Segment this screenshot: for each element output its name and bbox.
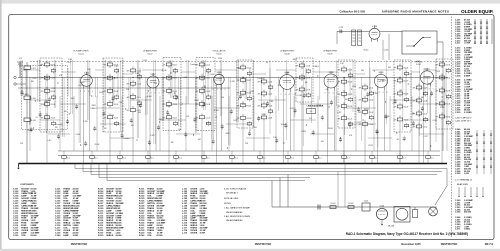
svg-text:47K: 47K	[413, 88, 417, 90]
component stack R101-R105	[41, 61, 56, 127]
audio ground drop	[381, 220, 383, 224]
svg-text:3: 3	[329, 93, 330, 95]
svg-text:C-1: C-1	[67, 157, 70, 159]
svg-text:15K: 15K	[245, 143, 249, 145]
heater supply wire A	[58, 150, 440, 152]
svg-text:T-401: T-401	[364, 200, 369, 202]
svg-text:C-341 25 MF 25 V: C-341 25 MF 25 V	[455, 121, 472, 123]
svg-text:C-139: C-139	[306, 90, 311, 92]
shield partition dashed vertical at right of schematic	[451, 17, 453, 239]
svg-text:C-1: C-1	[375, 157, 378, 159]
svg-text:R-134: R-134	[28, 130, 33, 132]
stack ground wire at x=344	[343, 122, 345, 164]
svg-text:22,000: 22,000	[116, 235, 122, 237]
cathode wire of V-105	[215, 87, 217, 163]
svg-text:2. ALL RESISTORS IN OHMS: 2. ALL RESISTORS IN OHMS	[224, 215, 251, 218]
svg-text:R-123: R-123	[302, 131, 307, 133]
svg-text:C-125: C-125	[206, 117, 211, 119]
svg-text:C-137: C-137	[306, 66, 311, 68]
svg-text:5: 5	[433, 89, 434, 91]
svg-text:220K: 220K	[218, 58, 223, 60]
svg-text:C-143: C-143	[432, 120, 437, 122]
svg-text:W-104: W-104	[80, 82, 85, 84]
svg-text:47K: 47K	[41, 117, 45, 119]
component stack C141-C144	[359, 84, 374, 128]
svg-text:R-130: R-130	[404, 120, 409, 122]
svg-text:V-401: V-401	[380, 206, 385, 208]
scan top edge bar	[0, 0, 500, 4]
svg-text:C-141: C-141	[369, 88, 374, 90]
svg-text:C-1: C-1	[179, 157, 182, 159]
svg-text:COIL: COIL	[21, 235, 26, 237]
svg-text:C-117: C-117	[67, 62, 71, 64]
phone jack J-401	[429, 207, 438, 216]
right parts list special rows	[455, 118, 472, 123]
svg-text:47K: 47K	[296, 90, 300, 92]
stack ground wire at x=264	[263, 121, 265, 163]
svg-text:V-109: V-109	[379, 72, 384, 74]
svg-text:220: 220	[55, 127, 58, 129]
svg-text:NOTES: NOTES	[224, 203, 231, 205]
right parts list group 4	[455, 128, 474, 175]
svg-text:R-134: R-134	[162, 70, 167, 72]
svg-text:47K: 47K	[196, 91, 200, 93]
svg-text:220: 220	[412, 113, 415, 115]
component stack R121-R125	[338, 66, 353, 127]
svg-text:R-105: R-105	[51, 117, 56, 119]
svg-text:3: 3	[285, 94, 286, 96]
svg-text:47K: 47K	[104, 104, 108, 106]
plate wire of V-105	[221, 87, 223, 151]
svg-text:C-143: C-143	[75, 134, 80, 136]
svg-text:AIRBORNE RADIO MAINTENANCE NOT: AIRBORNE RADIO MAINTENANCE NOTES	[382, 10, 449, 14]
svg-text:1. ALL CAPACITORS IN MMF: 1. ALL CAPACITORS IN MMF	[224, 207, 251, 210]
svg-text:47K: 47K	[127, 110, 131, 112]
svg-text:47K: 47K	[296, 78, 300, 80]
svg-text:.002: .002	[421, 97, 424, 99]
parts list column 1	[13, 187, 40, 237]
svg-text:47K: 47K	[41, 78, 45, 80]
svg-text:510: 510	[20, 143, 23, 145]
svg-text:C-1: C-1	[207, 157, 210, 159]
shield can T-106 i-f transformer can	[296, 58, 313, 102]
svg-text:RAD-1 Schematic Diagram, Navy: RAD-1 Schematic Diagram, Navy Type GO-46…	[346, 232, 468, 236]
svg-text:47K: 47K	[413, 101, 417, 103]
svg-text:47K: 47K	[394, 81, 398, 83]
svg-text:47K: 47K	[258, 94, 262, 96]
svg-text:47K: 47K	[394, 94, 398, 96]
svg-text:47K: 47K	[104, 117, 108, 119]
svg-text:C-133: C-133	[230, 81, 235, 83]
svg-text:V-105: V-105	[216, 53, 222, 55]
svg-text:2: 2	[281, 94, 282, 96]
svg-text:C-128: C-128	[83, 121, 88, 123]
svg-text:47K: 47K	[359, 112, 363, 114]
svg-text:COIL: COIL	[147, 235, 152, 237]
svg-text:.05: .05	[400, 90, 402, 92]
stack ground wire at x=419	[418, 130, 420, 163]
extra grid of vertical wires	[21, 60, 444, 147]
loudspeaker LS-401	[394, 207, 410, 223]
svg-text:47K: 47K	[394, 107, 398, 109]
svg-text:C-140: C-140	[55, 234, 60, 237]
svg-text:R-141: R-141	[194, 100, 199, 102]
svg-text:510: 510	[154, 83, 157, 85]
svg-text:R-116: R-116	[247, 68, 252, 70]
vacuum tube V-107	[280, 72, 295, 92]
svg-text:47K: 47K	[41, 91, 45, 93]
svg-text:R-109: R-109	[114, 104, 119, 106]
svg-text:6SK7: 6SK7	[226, 133, 230, 135]
svg-text:R-141: R-141	[328, 128, 333, 130]
svg-text:4: 4	[429, 89, 430, 91]
oscillator coil L-105 winding stack	[358, 30, 362, 46]
component stack C137-C139	[296, 62, 311, 98]
svg-text:47K: 47K	[413, 127, 417, 129]
svg-text:47K: 47K	[436, 104, 440, 106]
svg-text:22,000: 22,000	[31, 235, 37, 237]
vacuum tube V-109	[374, 71, 387, 90]
svg-text:R-119: R-119	[166, 106, 170, 108]
svg-text:47K: 47K	[196, 78, 200, 80]
oscillator coil L-104 winding stack	[352, 30, 356, 46]
svg-text:47K: 47K	[359, 88, 363, 90]
svg-text:R-125: R-125	[348, 118, 353, 120]
subcircuit drop wire 1	[382, 40, 384, 60]
svg-text:W-104: W-104	[214, 110, 219, 112]
svg-text:10K: 10K	[31, 81, 35, 83]
svg-text:5: 5	[225, 89, 226, 91]
svg-text:5: 5	[92, 91, 93, 93]
svg-text:510: 510	[87, 69, 90, 71]
svg-text:R-152: R-152	[364, 50, 369, 52]
cathode wire of V-110	[423, 87, 425, 164]
svg-text:R-119: R-119	[247, 105, 252, 107]
audio resistor R-162	[348, 206, 354, 209]
svg-text:.1 MF: .1 MF	[269, 101, 273, 103]
svg-text:C-1: C-1	[263, 157, 266, 159]
stack ground wire at x=169	[168, 121, 170, 164]
svg-text:C-371: C-371	[455, 229, 461, 231]
svg-text:47K: 47K	[338, 106, 342, 108]
svg-text:L-112: L-112	[404, 126, 408, 128]
svg-text:R-134: R-134	[446, 104, 451, 106]
svg-text:R-119: R-119	[99, 92, 103, 94]
svg-text:C-148: C-148	[423, 101, 428, 103]
audio resistor R-161	[330, 206, 336, 209]
svg-text:47K: 47K	[338, 118, 342, 120]
svg-text:R-101: R-101	[31, 120, 36, 122]
parts list column 5	[182, 188, 209, 234]
stack ground wire at x=400	[399, 123, 401, 163]
svg-text:1 MEG: 1 MEG	[464, 229, 471, 231]
svg-text:V-108: V-108	[284, 53, 290, 55]
svg-text:2: 2	[80, 91, 81, 93]
svg-text:.05: .05	[266, 62, 268, 64]
svg-text:SHIELD: SHIELD	[106, 235, 114, 237]
stack ground wire at x=133	[132, 114, 134, 164]
svg-text:C-117: C-117	[357, 122, 361, 124]
svg-text:10 MF: 10 MF	[200, 232, 206, 234]
svg-text:4: 4	[383, 92, 384, 94]
svg-text:UNLESS MARKED: UNLESS MARKED	[226, 219, 243, 222]
svg-text:47K: 47K	[127, 97, 131, 99]
svg-text:47K: 47K	[163, 91, 167, 93]
svg-text:V-101: V-101	[78, 53, 84, 55]
svg-text:C-socket: C-socket	[123, 137, 130, 140]
top subcircuit wire upper	[337, 30, 369, 32]
svg-text:68: 68	[40, 65, 42, 67]
svg-text:3: 3	[379, 92, 380, 94]
svg-text:C-1: C-1	[95, 157, 98, 159]
svg-text:47K: 47K	[126, 89, 130, 91]
svg-text:.002: .002	[198, 139, 201, 141]
svg-text:MI-22A: MI-22A	[388, 225, 395, 228]
component stack C112-C115	[127, 67, 142, 114]
svg-text:R-120: R-120	[247, 118, 252, 120]
svg-text:L-112: L-112	[114, 66, 118, 68]
svg-text:E-9: E-9	[310, 111, 313, 113]
svg-text:C-1: C-1	[319, 157, 322, 159]
svg-text:47K: 47K	[127, 84, 131, 86]
return wire 4	[99, 177, 310, 179]
shield can T-102 r-f transformer can	[103, 58, 123, 132]
left input filter components	[24, 62, 36, 164]
vacuum tube V-108	[324, 71, 338, 91]
plate wire of V-110	[429, 87, 431, 151]
secondary signal wire	[18, 87, 230, 89]
svg-text:47,000: 47,000	[157, 234, 163, 237]
svg-text:V-101: V-101	[84, 73, 89, 75]
right column capacitor symbols group 4	[476, 130, 492, 174]
svg-text:47K: 47K	[436, 117, 440, 119]
right parts list group 5	[455, 200, 474, 231]
svg-text:C-133: C-133	[364, 109, 369, 111]
svg-text:470: 470	[376, 132, 379, 134]
svg-text:5: 5	[387, 92, 388, 94]
svg-text:47K: 47K	[296, 66, 300, 68]
svg-text:L-101: L-101	[31, 68, 36, 70]
svg-text:.01 MF: .01 MF	[464, 43, 471, 45]
svg-text:R-112: R-112	[173, 78, 178, 80]
svg-text:.01: .01	[325, 89, 327, 91]
svg-text:47K: 47K	[163, 65, 167, 67]
cathode wire of V-101	[83, 89, 85, 164]
svg-text:R-123: R-123	[436, 71, 441, 73]
svg-text:47K: 47K	[359, 100, 363, 102]
svg-text:R-129: R-129	[404, 107, 409, 109]
return wire 1	[75, 168, 447, 170]
svg-text:C-133: C-133	[297, 95, 302, 97]
svg-text:C-1: C-1	[347, 157, 350, 159]
svg-text:L-119: L-119	[182, 232, 187, 234]
antenna terminal	[19, 62, 21, 78]
subcircuit drop wire 2	[388, 34, 390, 60]
svg-text:10K: 10K	[321, 141, 325, 143]
svg-text:47K: 47K	[338, 70, 342, 72]
svg-text:.01: .01	[102, 131, 104, 133]
svg-text:V-110: V-110	[425, 69, 430, 71]
svg-text:47K: 47K	[163, 104, 167, 106]
svg-text:R-132: R-132	[446, 78, 451, 80]
svg-text:R-118: R-118	[247, 93, 252, 95]
extra junction dots	[23, 69, 442, 148]
audio feed wire 4	[337, 172, 339, 208]
svg-text:47K: 47K	[104, 91, 108, 93]
svg-text:V-102: V-102	[151, 74, 156, 76]
coupling capacitor C-151	[339, 30, 341, 34]
plate wire of V-102	[155, 91, 157, 152]
svg-text:R-162: R-162	[349, 203, 354, 205]
cathode wire of V-102	[149, 91, 151, 164]
svg-text:C-144: C-144	[369, 124, 374, 126]
svg-text:C-1: C-1	[291, 157, 294, 159]
svg-text:R-103: R-103	[51, 91, 56, 93]
input terminal J-101	[14, 76, 16, 78]
svg-text:I-F AMPLIFIER: I-F AMPLIFIER	[280, 50, 294, 53]
component stack R106-R110	[104, 61, 119, 127]
svg-text:C-124: C-124	[206, 104, 211, 106]
svg-text:R-114: R-114	[173, 104, 178, 106]
svg-text:C-128: C-128	[373, 93, 378, 95]
svg-text:C-121: C-121	[206, 65, 211, 67]
cw oscillator switch box S-102	[402, 31, 437, 54]
parts list column 2	[55, 187, 82, 237]
svg-text:330: 330	[138, 112, 141, 114]
svg-text:R-108: R-108	[114, 91, 119, 93]
stack ground wire at x=110	[109, 121, 111, 164]
svg-text:C-120: C-120	[13, 235, 18, 237]
svg-text:1,000: 1,000	[464, 173, 469, 175]
cathode wire of V-107	[282, 92, 284, 164]
svg-text:.01: .01	[35, 117, 37, 119]
stack ground wire at x=442	[441, 120, 443, 163]
stack ground wire at x=302	[301, 93, 303, 163]
svg-text:2.2K: 2.2K	[52, 88, 56, 90]
component stack R131-R135	[436, 61, 451, 126]
svg-text:330: 330	[428, 84, 431, 86]
cathode wire of V-109	[377, 90, 379, 163]
svg-text:47K: 47K	[436, 78, 440, 80]
svg-text:C-1: C-1	[151, 157, 154, 159]
svg-text:C-151: C-151	[339, 27, 344, 29]
svg-text:3: 3	[84, 91, 85, 93]
svg-text:.1 MF: .1 MF	[202, 87, 206, 89]
svg-text:47K: 47K	[104, 65, 108, 67]
audio output wire	[272, 206, 437, 208]
svg-text:R-134: R-134	[95, 144, 100, 146]
right parts list group 3	[455, 80, 474, 114]
svg-text:C-149: C-149	[423, 114, 428, 116]
scattered bypass capacitors	[21, 90, 434, 147]
svg-text:47K: 47K	[258, 106, 262, 108]
svg-text:5: 5	[159, 93, 160, 95]
svg-text:C-339: C-339	[455, 112, 460, 114]
svg-text:R-101: R-101	[51, 65, 56, 67]
svg-text:REAR VIEW: REAR VIEW	[457, 183, 468, 186]
shield can T-103 i-f transformer can	[163, 58, 181, 131]
chassis dashed line across schematic top	[30, 61, 450, 63]
short horizontal interconnect wires	[24, 69, 40, 71]
svg-text:R-115: R-115	[173, 117, 178, 119]
terminal diagram block	[455, 179, 484, 198]
svg-text:2: 2	[325, 93, 326, 95]
svg-text:C-1: C-1	[431, 157, 434, 159]
right parts list group 2	[455, 48, 474, 78]
svg-text:12K: 12K	[104, 128, 108, 130]
component stack R111-R115	[163, 61, 178, 127]
svg-text:500,000: 500,000	[464, 212, 471, 214]
svg-text:5 MMF: 5 MMF	[464, 75, 471, 77]
scattered component value labels	[19, 58, 444, 147]
plate wire of V-107	[290, 92, 292, 151]
svg-text:R-113: R-113	[173, 91, 178, 93]
svg-text:68: 68	[397, 139, 399, 141]
svg-text:2.2 MEG: 2.2 MEG	[464, 112, 472, 114]
svg-text:3: 3	[151, 93, 152, 95]
svg-text:C-155: C-155	[384, 50, 389, 52]
cathode wire of V-108	[327, 91, 329, 164]
plate wire of V-109	[383, 90, 385, 151]
svg-text:6SK7: 6SK7	[92, 105, 96, 107]
svg-text:4: 4	[333, 93, 334, 95]
audio coupling capacitor C-161	[317, 205, 319, 210]
svg-text:47K: 47K	[338, 82, 342, 84]
return wire 3	[91, 174, 437, 176]
output transformer T-401	[362, 203, 370, 211]
svg-text:47K: 47K	[59, 75, 63, 77]
svg-text:1 MEG: 1 MEG	[380, 80, 386, 82]
svg-text:47K: 47K	[127, 71, 131, 73]
phone plug P-401	[413, 210, 418, 218]
svg-text:2.2K: 2.2K	[409, 74, 413, 76]
svg-text:R-141: R-141	[261, 114, 266, 116]
svg-text:R-119: R-119	[233, 120, 237, 122]
svg-text:V-105: V-105	[217, 72, 222, 74]
svg-text:15K: 15K	[178, 129, 182, 131]
output tube V-401	[376, 208, 387, 219]
svg-text:47K: 47K	[349, 135, 353, 137]
return wire 5	[107, 180, 305, 182]
bus left terminal	[18, 164, 20, 168]
svg-text:10K: 10K	[388, 67, 392, 69]
svg-text:CoNavAer 08-1-505: CoNavAer 08-1-505	[340, 10, 366, 14]
audio feed wire 3	[287, 175, 289, 208]
svg-text:OSCILLATOR: OSCILLATOR	[213, 50, 226, 53]
scan left edge bar	[0, 0, 2, 251]
stack ground wire at x=243	[242, 122, 244, 164]
diagonal wire to jack	[435, 185, 448, 205]
main signal wire	[18, 77, 448, 79]
svg-text:C-365: C-365	[455, 212, 461, 214]
svg-text:1 MEG: 1 MEG	[313, 66, 319, 68]
shield can T-101 antenna transformer can	[40, 58, 62, 132]
svg-text:R-102: R-102	[51, 78, 56, 80]
vacuum tube V-105	[214, 71, 224, 87]
svg-text:.002: .002	[131, 125, 134, 127]
svg-text:R-F AMPLIFIER: R-F AMPLIFIER	[74, 50, 89, 53]
stack ground wire at x=47	[46, 121, 48, 164]
svg-text:R-135: R-135	[446, 117, 451, 119]
svg-text:S-102: S-102	[416, 64, 421, 66]
component stack C121-C125	[196, 61, 211, 127]
svg-text:CHOKE: CHOKE	[190, 232, 198, 234]
svg-text:C-324: C-324	[455, 74, 461, 77]
svg-text:W-104: W-104	[281, 124, 286, 126]
svg-text:C-150: C-150	[423, 127, 428, 129]
svg-text:10 MF: 10 MF	[73, 235, 79, 237]
svg-text:I-F AMPLIFIER: I-F AMPLIFIER	[143, 50, 157, 53]
